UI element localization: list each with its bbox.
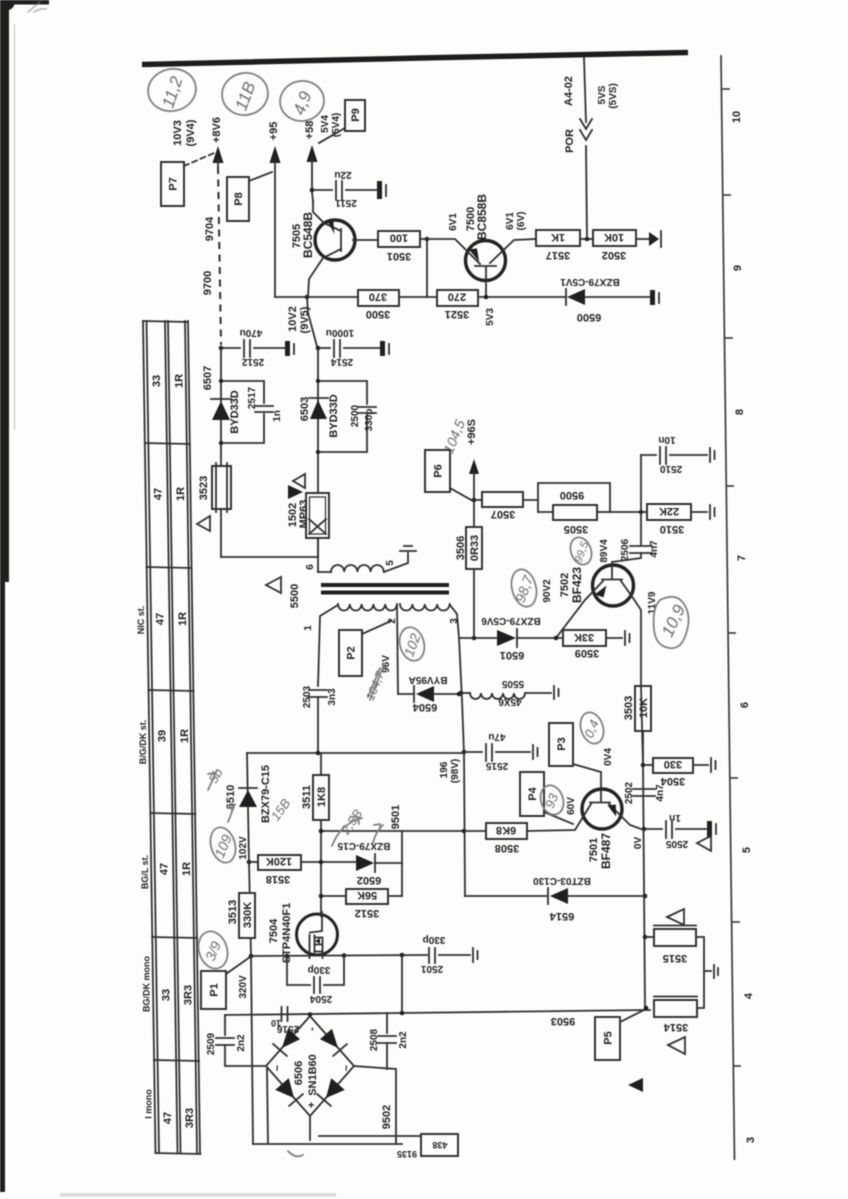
handwritten circle 11,2 <box>144 64 200 115</box>
svg-text:BC858B: BC858B <box>475 194 489 240</box>
plug P5 <box>595 1017 620 1060</box>
svg-text:2n2: 2n2 <box>398 1031 409 1049</box>
node +96S output arrow <box>469 459 479 474</box>
svg-text:P5: P5 <box>603 1031 615 1044</box>
svg-text:BZX79-C5V1: BZX79-C5V1 <box>560 276 620 287</box>
svg-text:9501: 9501 <box>390 805 402 829</box>
junction <box>310 188 315 193</box>
handwritten circle 10,9 <box>654 597 689 648</box>
svg-text:5V3: 5V3 <box>485 308 496 326</box>
capacitor 2511 22u <box>312 189 332 191</box>
transistor Q7501 BF487 <box>582 789 622 829</box>
transformer 5500 primary winding <box>317 557 319 572</box>
wire <box>426 239 428 297</box>
svg-text:6506: 6506 <box>293 1061 305 1085</box>
svg-text:6514: 6514 <box>549 910 574 922</box>
svg-text:1R: 1R <box>175 487 187 501</box>
svg-text:2503: 2503 <box>302 685 313 708</box>
svg-text:2510: 2510 <box>659 463 682 474</box>
svg-text:3513: 3513 <box>227 900 239 924</box>
svg-text:SN1B60: SN1B60 <box>307 1054 319 1096</box>
wire 10V2 rail <box>307 297 318 557</box>
diode 6503 BYD33D <box>309 397 328 399</box>
svg-text:3514: 3514 <box>663 1021 688 1033</box>
svg-text:3511: 3511 <box>301 785 313 809</box>
ground pin5 <box>400 550 416 552</box>
svg-text:3: 3 <box>745 1137 757 1143</box>
node +8V6 output arrow <box>213 146 224 163</box>
diode 6504 BYV95A <box>398 693 414 695</box>
svg-text:39: 39 <box>157 730 169 742</box>
right border line <box>721 55 735 1160</box>
capacitor 2508 2n2 <box>386 1013 388 1033</box>
border tick marks <box>721 89 741 1066</box>
svg-text:1K: 1K <box>551 231 565 243</box>
wire 9700 dashed <box>218 167 221 345</box>
svg-text:11V9: 11V9 <box>647 591 658 614</box>
wire pin6 bus <box>221 556 318 558</box>
svg-text:90V2: 90V2 <box>542 579 553 603</box>
ground stub <box>704 970 711 972</box>
resistor 3506 0R33 <box>473 500 475 527</box>
svg-text:9: 9 <box>732 265 744 271</box>
capacitor 2501 330p <box>428 948 430 963</box>
svg-text:33: 33 <box>161 989 173 1001</box>
svg-text:2505: 2505 <box>665 838 688 849</box>
svg-text:6: 6 <box>739 702 751 708</box>
svg-text:330p: 330p <box>308 964 331 975</box>
capacitor 2505 1n <box>644 828 662 830</box>
resistor 3512 56K <box>321 895 346 897</box>
handwritten circle 102 <box>396 624 428 663</box>
svg-text:0R33: 0R33 <box>469 535 481 561</box>
node junction <box>219 346 224 351</box>
svg-text:22u: 22u <box>334 169 351 180</box>
bridge diode upper-left <box>282 1029 300 1048</box>
svg-text:1R: 1R <box>179 729 191 743</box>
wire feedback bus y753 <box>247 752 464 754</box>
svg-text:47: 47 <box>159 863 171 875</box>
plug P2 <box>339 630 362 676</box>
ground <box>377 181 382 199</box>
resistor 3509 33K <box>563 630 606 646</box>
svg-text:+95: +95 <box>268 122 280 141</box>
svg-text:+58: +58 <box>304 121 316 140</box>
handwritten circle 99,5 <box>567 534 595 567</box>
svg-text:370: 370 <box>369 291 387 303</box>
svg-text:BC548B: BC548B <box>301 212 315 258</box>
wire 0V rail <box>641 686 645 1008</box>
svg-text:BF423: BF423 <box>570 567 584 603</box>
svg-text:2514: 2514 <box>330 356 353 367</box>
border zone numbers <box>731 111 757 1143</box>
zener diode 6500 BZX79-C5V1 <box>565 289 567 305</box>
svg-text:3R3: 3R3 <box>184 1108 196 1128</box>
svg-text:P2: P2 <box>346 646 358 659</box>
svg-text:10: 10 <box>731 111 743 123</box>
svg-text:5V4: 5V4 <box>320 115 331 133</box>
plug P8 <box>227 177 249 221</box>
svg-text:BYV95A: BYV95A <box>409 674 448 685</box>
svg-text:3512: 3512 <box>355 907 379 919</box>
ground bar <box>650 290 655 305</box>
svg-text:3518: 3518 <box>266 873 290 885</box>
wire pin3 rail <box>459 638 465 896</box>
svg-text:10K: 10K <box>604 231 624 243</box>
svg-text:120K: 120K <box>266 855 292 867</box>
svg-text:33: 33 <box>151 375 163 387</box>
handwritten circle 93 <box>537 782 567 817</box>
capacitor 2517 1n bypass loop <box>221 381 264 403</box>
handwritten circle 4,9 <box>277 78 326 124</box>
svg-text:6507: 6507 <box>202 366 214 390</box>
svg-text:BG/DK mono: BG/DK mono <box>142 956 152 1012</box>
svg-text:P3: P3 <box>556 737 568 750</box>
svg-text:6V1: 6V1 <box>505 212 516 230</box>
svg-text:330: 330 <box>664 758 682 770</box>
transformer core <box>321 583 449 587</box>
svg-text:(5VS): (5VS) <box>608 83 619 109</box>
bridge diode upper-right <box>320 1029 338 1048</box>
svg-text:438: 438 <box>432 1140 447 1150</box>
wire left control rail <box>247 753 251 956</box>
wire drop to 9503 <box>401 955 403 1013</box>
resistor 3517 1K <box>536 230 580 246</box>
wire gate rail 3511 <box>320 753 322 775</box>
svg-text:(6V): (6V) <box>516 212 527 231</box>
fusible resistor 3515 <box>645 936 654 938</box>
svg-text:320V: 320V <box>238 975 249 999</box>
warning triangle <box>266 577 281 593</box>
wire +95 stem <box>274 160 276 297</box>
MOSFET 7504 STP4N40F1 <box>297 914 338 955</box>
top-left black edge bar <box>0 0 49 5</box>
svg-text:3502: 3502 <box>602 249 626 261</box>
svg-text:4: 4 <box>743 992 755 999</box>
wire main +95 bus <box>275 296 358 298</box>
capacitor 2509 2n2 <box>224 1015 226 1035</box>
plug P9 <box>345 100 365 131</box>
resistor 3521 270 <box>437 290 478 306</box>
svg-text:-: - <box>306 1027 318 1031</box>
svg-text:3508: 3508 <box>495 842 519 854</box>
svg-text:1000u: 1000u <box>326 327 354 338</box>
handwritten circle 11B <box>219 69 272 118</box>
wire 9501 <box>321 830 464 832</box>
svg-text:9135: 9135 <box>397 1149 417 1159</box>
svg-text:3515: 3515 <box>663 952 687 964</box>
svg-text:2517: 2517 <box>247 386 258 409</box>
warning triangle <box>667 909 684 925</box>
svg-text:3506: 3506 <box>455 536 467 560</box>
warning triangle <box>697 836 711 851</box>
transistor Q7500 BC858B <box>466 241 506 281</box>
svg-text:4n7: 4n7 <box>649 540 660 558</box>
svg-text:BYD33D: BYD33D <box>229 390 241 433</box>
inductor 5505 45X6 <box>461 692 470 694</box>
svg-text:P8: P8 <box>233 192 245 205</box>
svg-text:2506: 2506 <box>620 538 631 561</box>
handwritten circle 109 <box>207 824 240 865</box>
resistor 3508 6K8 <box>486 823 527 839</box>
node +95 output arrow <box>270 146 281 163</box>
bridge diode lower-left <box>275 1078 294 1098</box>
svg-text:I mono: I mono <box>144 1089 154 1119</box>
resistor 3502 10K <box>593 230 636 246</box>
zener diode 6502 BZX79-C15 <box>356 855 374 871</box>
fusible resistor 3514 <box>654 1000 697 1017</box>
svg-text:3R3: 3R3 <box>183 985 195 1005</box>
svg-text:330p: 330p <box>423 934 446 945</box>
bottom faint scan line <box>60 1193 336 1197</box>
resistor 3504 330 <box>643 764 653 766</box>
warning triangle filled <box>288 485 303 499</box>
capacitor 2502 4n7 <box>633 788 655 790</box>
plug P3 <box>549 723 573 766</box>
svg-text:2500: 2500 <box>350 404 361 427</box>
svg-text:22K: 22K <box>659 505 679 517</box>
svg-text:330K: 330K <box>242 902 254 928</box>
resistor 3510 22K <box>647 504 691 520</box>
resistor 3518 120K <box>258 855 301 870</box>
svg-text:2509: 2509 <box>206 1032 217 1055</box>
svg-text:P1: P1 <box>209 983 221 996</box>
svg-text:P4: P4 <box>527 786 539 800</box>
left edge thin scan line <box>14 24 16 430</box>
handwritten circle 319 <box>194 928 232 973</box>
node +58 output arrow <box>307 145 318 162</box>
svg-text:3509: 3509 <box>575 647 599 659</box>
svg-text:47: 47 <box>155 613 167 625</box>
plug P6 <box>425 450 450 492</box>
svg-text:BG/L st.: BG/L st. <box>140 855 150 889</box>
table right edge double line <box>185 321 197 1153</box>
svg-text:89V4: 89V4 <box>599 539 610 563</box>
svg-text:BZX79-C5V6: BZX79-C5V6 <box>481 615 541 626</box>
svg-text:9700: 9700 <box>202 271 214 295</box>
svg-text:1K8: 1K8 <box>316 787 328 807</box>
left black scan edge strip <box>0 0 15 1192</box>
plug P7 <box>161 162 184 206</box>
svg-text:3503: 3503 <box>623 696 635 720</box>
capacitor 2503 3n3 <box>309 689 327 691</box>
svg-text:0V: 0V <box>633 837 644 850</box>
svg-text:1R: 1R <box>174 374 186 388</box>
table row dividers <box>143 321 188 322</box>
svg-text:5500: 5500 <box>289 584 301 608</box>
svg-text:0V4: 0V4 <box>603 748 614 766</box>
resistor 3507 <box>474 499 482 501</box>
warning triangle <box>197 516 210 531</box>
svg-text:196: 196 <box>439 761 450 778</box>
svg-text:6K8: 6K8 <box>496 824 516 836</box>
selector table left <box>136 321 201 1154</box>
svg-text:1: 1 <box>303 625 314 631</box>
wire left rail <box>220 348 222 557</box>
svg-text:1R: 1R <box>181 862 193 876</box>
svg-text:2n2: 2n2 <box>236 1034 247 1052</box>
svg-text:NIC st.: NIC st. <box>136 606 146 635</box>
svg-text:B/G/DK st.: B/G/DK st. <box>138 720 148 765</box>
ground <box>285 341 290 356</box>
svg-text:P7: P7 <box>168 177 180 190</box>
svg-text:BF487: BF487 <box>599 833 613 869</box>
svg-text:7: 7 <box>736 555 748 561</box>
pointer arrow mark <box>628 1078 643 1092</box>
capacitor 2500 330p bypass loop <box>318 381 367 404</box>
mains connector box <box>421 1134 458 1156</box>
svg-text:6500: 6500 <box>577 311 601 323</box>
bridge diode lower-right <box>326 1078 345 1098</box>
svg-text:2501: 2501 <box>420 963 443 974</box>
wire 120K row <box>247 860 252 865</box>
svg-text:3521: 3521 <box>445 308 469 320</box>
svg-text:1R: 1R <box>177 612 189 626</box>
zener diode 6501 BZX79-C5V6 <box>459 637 496 639</box>
svg-text:3507: 3507 <box>491 508 515 520</box>
capacitor 2516 <box>281 1007 283 1021</box>
ground <box>380 341 385 356</box>
svg-text:470u: 470u <box>240 327 263 338</box>
plug P1 <box>201 971 226 1009</box>
bridge rectifier 6506 <box>266 1016 354 1116</box>
svg-text:5VS: 5VS <box>597 85 608 104</box>
svg-text:10n: 10n <box>658 434 675 445</box>
transformer secondary winding 1-2 <box>338 604 397 611</box>
svg-text:3500: 3500 <box>366 308 390 320</box>
diode 6514 BZT03-C130 <box>465 895 548 897</box>
warning triangle <box>668 1037 685 1054</box>
svg-text:100: 100 <box>390 232 408 244</box>
svg-text:A4-02: A4-02 <box>563 76 575 106</box>
table left double vertical lines <box>143 321 156 1153</box>
svg-text:P6: P6 <box>433 464 445 477</box>
svg-text:56K: 56K <box>357 889 377 901</box>
svg-text:5: 5 <box>385 560 396 566</box>
svg-text:+8V6: +8V6 <box>211 117 223 143</box>
svg-text:60V: 60V <box>566 797 577 815</box>
resistor 3501 100 <box>378 231 420 247</box>
resistor 3511 1K8 <box>313 775 329 820</box>
resistor 3503 10K <box>635 686 651 731</box>
svg-text:5505: 5505 <box>501 678 524 689</box>
svg-text:10V2: 10V2 <box>287 306 299 332</box>
svg-text:BZX79-C15: BZX79-C15 <box>337 840 390 851</box>
handwritten circle 98,7 <box>508 567 540 610</box>
svg-text:3n3: 3n3 <box>327 688 338 706</box>
node junction <box>316 346 321 351</box>
svg-text:6503: 6503 <box>299 397 311 421</box>
resistor 3500 370 <box>358 290 399 306</box>
svg-text:3505: 3505 <box>564 523 588 535</box>
thick top border line <box>142 53 688 65</box>
svg-text:10V3: 10V3 <box>172 120 184 146</box>
svg-text:45X6: 45X6 <box>498 696 522 707</box>
svg-text:(9V4): (9V4) <box>185 119 197 146</box>
svg-text:7504: 7504 <box>268 918 280 943</box>
faint pencil mark top-left <box>28 2 46 12</box>
transistor Q7505 BC548B <box>315 220 355 260</box>
svg-text:47u: 47u <box>488 731 505 742</box>
wire emitter rail <box>640 455 642 545</box>
svg-text:1n: 1n <box>669 812 681 823</box>
svg-text:3517: 3517 <box>546 249 570 261</box>
svg-text:6V1: 6V1 <box>448 213 459 231</box>
svg-text:2512: 2512 <box>241 356 264 367</box>
snubber loop capacitor 2504 330p <box>287 956 310 985</box>
capacitor 2512 470u <box>221 347 240 349</box>
svg-text:2508: 2508 <box>369 1028 380 1051</box>
wire 320V bus <box>251 955 427 956</box>
svg-text:33K: 33K <box>574 631 594 643</box>
svg-text:6: 6 <box>305 564 316 570</box>
svg-text:+96S: +96S <box>466 419 478 445</box>
svg-text:2502: 2502 <box>624 781 635 804</box>
transformer secondary winding 2-3 <box>400 604 450 611</box>
transistor Q7502 BF423 <box>593 565 634 606</box>
zener diode 6510 BZX79-C15 <box>239 787 257 789</box>
svg-text:3523: 3523 <box>198 476 210 500</box>
svg-text:10K: 10K <box>638 698 650 718</box>
svg-text:~: ~ <box>272 1064 284 1071</box>
capacitor 2515 47u <box>462 750 467 755</box>
svg-text:9704: 9704 <box>204 216 216 241</box>
svg-text:9500: 9500 <box>560 489 584 501</box>
capacitor 2514 1000u <box>318 347 330 349</box>
wire 9502 <box>354 1066 396 1140</box>
plug P4 <box>520 772 544 816</box>
svg-text:6502: 6502 <box>357 874 381 886</box>
svg-text:47: 47 <box>162 1112 174 1124</box>
wire bridge top bus <box>225 1010 650 1015</box>
svg-text:2504: 2504 <box>309 993 332 1004</box>
svg-text:4n7: 4n7 <box>655 784 666 802</box>
svg-text:+: + <box>306 1102 318 1108</box>
svg-text:6504: 6504 <box>412 701 437 713</box>
svg-text:2511: 2511 <box>335 197 357 208</box>
svg-text:P9: P9 <box>350 108 362 121</box>
capacitor 2506 4n7 <box>630 545 652 547</box>
svg-text:102V: 102V <box>238 836 249 860</box>
svg-text:9502: 9502 <box>381 1105 393 1129</box>
ground arrow-bar <box>649 232 659 246</box>
svg-text:POR: POR <box>564 129 576 153</box>
svg-text:BZT03-C130: BZT03-C130 <box>533 875 591 886</box>
svg-text:6501: 6501 <box>500 649 524 661</box>
handwritten strikethrough mark <box>368 667 383 700</box>
svg-text:~: ~ <box>341 1064 353 1071</box>
svg-text:(9V5): (9V5) <box>299 306 311 333</box>
svg-text:8: 8 <box>734 409 746 415</box>
svg-text:2515: 2515 <box>485 760 508 771</box>
wire +58 stem <box>311 158 313 192</box>
resistor 3513 330K <box>239 893 255 938</box>
svg-text:9503: 9503 <box>551 1015 575 1027</box>
inductor 3523 <box>212 466 231 509</box>
svg-text:(98V): (98V) <box>450 759 461 783</box>
diode 6507 BYD33D <box>211 398 231 400</box>
wire link 9500 loop <box>538 483 610 512</box>
svg-text:MP63: MP63 <box>298 500 310 529</box>
svg-text:5: 5 <box>741 847 753 853</box>
bottom-left black mark <box>0 1152 5 1190</box>
wire POR drop <box>584 57 586 122</box>
svg-text:3501: 3501 <box>387 250 411 262</box>
svg-text:47: 47 <box>153 488 165 500</box>
wire bridge bottom <box>309 1116 311 1140</box>
POR connector chevrons <box>580 119 592 129</box>
transformer driver 1502 MP63 <box>306 493 329 538</box>
